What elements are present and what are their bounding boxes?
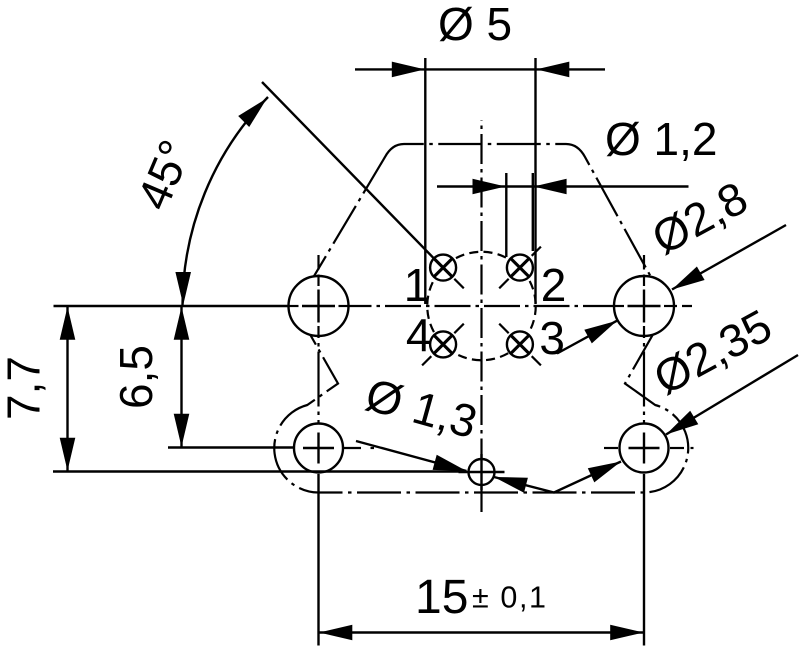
horizontal centerline through upper mounting holes — [288, 305, 692, 307]
dimension 6,5 line — [180, 306, 182, 448]
svg-text:7,7: 7,7 — [0, 356, 50, 420]
dimension 1,2 extension line left — [505, 173, 507, 257]
dimension 6,5 extension line bottom — [168, 446, 294, 448]
upper-left mounting hole (2.8) — [289, 276, 349, 336]
pin 2 radial centerline tick outer — [532, 247, 541, 256]
pin 4 radial centerline tick inner — [454, 324, 464, 334]
dimension 5 extension line left — [424, 58, 426, 304]
leader diameter 1,3 — [356, 441, 467, 471]
dimension 7,7 extension line bottom — [53, 470, 467, 472]
lower-right mounting hole (2.35) — [620, 424, 669, 473]
center hole 1.3 — [469, 459, 495, 485]
45 degree construction line through pin 1 — [262, 82, 434, 258]
pin 3 radial centerline tick inner — [499, 324, 509, 334]
leader diameter 2,8 — [672, 225, 786, 290]
svg-text:1: 1 — [404, 259, 430, 311]
dimension 5 extension line right — [534, 58, 536, 304]
lower-left mounting hole (2.35) — [294, 424, 343, 473]
pin 1 hole (1.2) — [430, 255, 456, 281]
leader diameter 2,35 — [666, 355, 798, 435]
upper-right mounting hole (2.8) — [614, 276, 674, 336]
svg-text:4: 4 — [406, 309, 432, 361]
pin 3 hole (1.2) — [507, 331, 533, 357]
svg-text:Ø 1,2: Ø 1,2 — [605, 113, 718, 165]
svg-text:± 0,1: ± 0,1 — [472, 581, 548, 615]
part outline contour (dash-dot) — [274, 144, 688, 493]
pin 4 radial centerline tick outer — [422, 356, 431, 365]
dimension 7,7 extension line top — [54, 305, 289, 307]
dimension 7,7 line — [66, 306, 68, 472]
svg-text:3: 3 — [539, 312, 565, 364]
leader from pin 3 to upper-right hole — [557, 321, 617, 354]
svg-text:15: 15 — [415, 571, 468, 624]
svg-text:Ø 5: Ø 5 — [438, 0, 512, 50]
svg-text:6,5: 6,5 — [110, 345, 162, 409]
pin 2 hole (1.2) — [507, 255, 533, 281]
dimension 5 line — [355, 68, 605, 70]
45 degree dimension arc — [183, 97, 269, 306]
vertical centerline left hole pair — [317, 255, 319, 424]
horizontal centerline lower hole row segments — [343, 447, 361, 449]
dimension 15 line — [319, 631, 645, 633]
pin 4 hole (1.2) — [430, 331, 456, 357]
vertical centerline right hole pair — [643, 255, 645, 424]
pin 2 radial centerline tick inner — [499, 279, 509, 289]
pin 1 radial centerline tick inner — [454, 279, 464, 289]
svg-text:45°: 45° — [127, 133, 202, 217]
dimension 1,2 extension line right — [532, 173, 534, 251]
dimension 15 extension line left — [317, 474, 319, 646]
pitch circle diameter 5 (dashed) — [427, 252, 536, 361]
svg-text:Ø 1,3: Ø 1,3 — [360, 368, 482, 448]
pin 3 radial centerline tick outer — [532, 356, 541, 365]
dimension 15 extension line right — [643, 474, 645, 646]
bent double-arrow leader between center hole and lower-right hole — [494, 462, 621, 493]
vertical centerline through pattern center — [480, 120, 482, 512]
svg-text:2: 2 — [541, 259, 567, 311]
dimension 1,2 line — [437, 185, 689, 187]
